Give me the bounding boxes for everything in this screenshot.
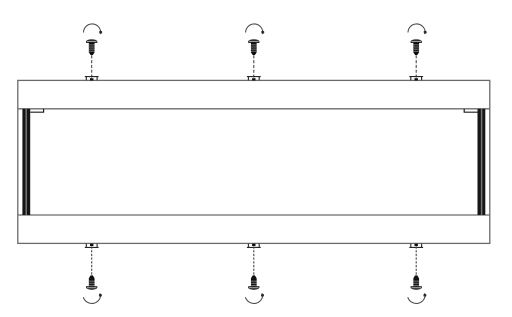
right rail lip (464, 109, 477, 112)
dashed guide line bottom-1 (91, 246, 93, 275)
mounting tab bottom-2 (247, 244, 261, 248)
rotation arrow bottom-3 (408, 293, 427, 303)
rotation arrow top-2 (246, 24, 265, 34)
left rail lip (30, 109, 43, 112)
mounting tab top-3 (409, 77, 423, 81)
screw bottom-1 (86, 275, 97, 289)
dashed guide line bottom-3 (415, 246, 417, 275)
dashed guide line top-2 (253, 55, 255, 79)
mounting tab top-1 (85, 77, 99, 81)
screw bottom-3 (411, 275, 422, 289)
screw bottom-2 (248, 275, 259, 289)
mounting tab top-2 (247, 77, 261, 81)
rotation arrow top-3 (408, 24, 427, 34)
mounting tab bottom-3 (409, 244, 423, 248)
screw top-2 (248, 39, 259, 55)
dashed guide line top-3 (415, 55, 417, 79)
screw top-3 (411, 39, 422, 55)
rotation arrow bottom-2 (245, 293, 264, 303)
rotation arrow bottom-1 (83, 293, 102, 303)
left side rail (22, 109, 30, 215)
dashed guide line top-1 (91, 55, 93, 79)
dashed guide line bottom-2 (253, 246, 255, 275)
frame outer rectangle (18, 80, 490, 243)
frame inner top line (18, 108, 490, 110)
mounting tab bottom-1 (85, 244, 99, 248)
screw top-1 (86, 39, 97, 55)
right side rail (478, 109, 486, 215)
rotation arrow top-1 (84, 24, 103, 34)
frame inner bottom line (18, 214, 490, 216)
